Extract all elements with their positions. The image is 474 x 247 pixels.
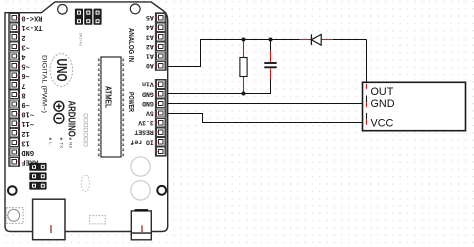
pin label A4 xyxy=(146,24,154,31)
pin socket A0 xyxy=(155,61,165,69)
svg-text:3.3V: 3.3V xyxy=(138,119,154,126)
pin socket A2 xyxy=(155,42,165,50)
wire 5V to module VCC xyxy=(160,114,367,123)
pin socket A5 xyxy=(155,13,165,21)
sensor module U2 xyxy=(363,82,466,130)
pin GND lead xyxy=(366,96,368,108)
pin label D9 xyxy=(21,100,29,108)
svg-text:5V: 5V xyxy=(146,110,154,117)
svg-text:IO ref: IO ref xyxy=(130,138,154,145)
pin label IO ref xyxy=(130,138,154,145)
mounting hole bottom-right xyxy=(157,186,166,195)
crystal Y1 oval xyxy=(81,175,89,191)
svg-text:ANALOG IN: ANALOG IN xyxy=(127,28,134,62)
pin label D13 xyxy=(21,138,29,146)
pin socket GND xyxy=(155,90,165,98)
pin label D12 xyxy=(21,129,29,137)
svg-text:~10: ~10 xyxy=(21,110,34,118)
svg-text:2: 2 xyxy=(21,33,25,41)
UNO ellipse xyxy=(50,54,73,87)
capacitor C1 xyxy=(264,40,276,94)
svg-text:A1: A1 xyxy=(146,53,154,60)
svg-text:TX: TX xyxy=(59,142,64,148)
pin socket digital D6 xyxy=(10,71,20,79)
pin label D11 xyxy=(21,119,34,127)
svg-text:GND: GND xyxy=(371,98,395,110)
LED TX label xyxy=(59,138,64,148)
pin socket digital GND xyxy=(10,148,20,156)
ICSP header 2 xyxy=(29,163,46,190)
digital header strip A xyxy=(9,13,20,90)
pin label D1 xyxy=(21,23,42,31)
pin label 3.3V xyxy=(138,119,154,126)
svg-text:POWER: POWER xyxy=(127,92,134,112)
svg-text:7: 7 xyxy=(21,81,25,89)
pin socket A4 xyxy=(155,23,165,31)
pin socket digital D9 xyxy=(10,100,20,108)
svg-text:A4: A4 xyxy=(146,24,154,31)
pin label A0 xyxy=(146,62,154,69)
svg-text:8R27AS: 8R27AS xyxy=(79,33,83,47)
svg-text:A2: A2 xyxy=(146,43,154,50)
text UNO xyxy=(53,59,70,82)
logo minus xyxy=(54,114,64,124)
pin label D7 xyxy=(21,81,25,89)
electrolytic capacitor C6 xyxy=(131,181,150,200)
LED L label xyxy=(48,138,53,146)
text POWER xyxy=(127,92,134,112)
logo plus xyxy=(54,101,64,111)
svg-text:~6: ~6 xyxy=(21,71,29,79)
mounting hole top-right xyxy=(130,4,140,14)
resistor R1 xyxy=(240,40,247,93)
pin label GND xyxy=(142,90,154,97)
pin socket digital D10 xyxy=(10,109,20,117)
svg-text:ATMEL: ATMEL xyxy=(104,86,113,108)
power jack J2 xyxy=(131,210,151,240)
svg-text:ARDUINO: ARDUINO xyxy=(66,100,77,136)
chip part number xyxy=(79,33,83,47)
svg-text:A5: A5 xyxy=(146,14,154,21)
text ANALOG IN xyxy=(127,28,134,62)
svg-text:~3: ~3 xyxy=(21,42,29,50)
pin socket A1 xyxy=(155,52,165,60)
svg-text:OUT: OUT xyxy=(371,86,394,98)
pin label D3 xyxy=(21,42,29,50)
pin socket 5V xyxy=(155,109,165,117)
svg-text:RESET: RESET xyxy=(134,129,154,136)
pin label D0 xyxy=(21,14,42,22)
pin socket 3.3V xyxy=(155,118,165,126)
text DIGITAL (PWM~) xyxy=(41,55,48,113)
electrolytic capacitor C5 xyxy=(131,157,150,176)
svg-text:GND: GND xyxy=(21,148,34,156)
pin label RESET xyxy=(134,129,154,136)
svg-text:RX<-0: RX<-0 xyxy=(21,14,42,22)
wire GND1 to RC bottom xyxy=(160,93,271,95)
svg-text:Vin: Vin xyxy=(142,81,154,88)
svg-text:13: 13 xyxy=(21,138,29,146)
Arduino UNO board outline xyxy=(5,2,168,232)
pin label D8 xyxy=(21,90,25,98)
pin socket GND xyxy=(155,99,165,107)
pin label A2 xyxy=(146,43,154,50)
LED RX label xyxy=(68,138,73,149)
pin label D10 xyxy=(21,110,34,118)
pin VCC lead xyxy=(366,113,368,125)
pin label D4 xyxy=(21,52,25,60)
pin socket digital D1 xyxy=(10,23,20,31)
pin socket digital AREF xyxy=(10,157,20,165)
pin socket digital D12 xyxy=(10,129,20,137)
mounting hole bottom-left xyxy=(8,186,17,195)
svg-text:VCC: VCC xyxy=(371,118,394,130)
wire OUT riser xyxy=(366,40,368,85)
mounting hole top-left xyxy=(58,5,68,15)
digital header strip B xyxy=(9,90,20,167)
pin label 5V xyxy=(146,110,154,117)
pin socket Vin xyxy=(155,80,165,88)
pin label D5 xyxy=(21,62,29,70)
pin socket A3 xyxy=(155,33,165,41)
voltage regulator pad xyxy=(90,216,106,224)
text ATMEL xyxy=(104,86,113,108)
pin socket digital D13 xyxy=(10,138,20,146)
pin socket digital D7 xyxy=(10,81,20,89)
svg-text:A3: A3 xyxy=(146,33,154,40)
resistor network pads xyxy=(84,114,87,146)
pin label GND xyxy=(21,148,34,156)
junction bottom of R1 xyxy=(242,92,246,96)
svg-text:TX->1: TX->1 xyxy=(21,23,42,31)
svg-text:DIGITAL (PWM~): DIGITAL (PWM~) xyxy=(41,55,48,113)
svg-text:4: 4 xyxy=(21,52,25,60)
pin label D6 xyxy=(21,71,29,79)
svg-text:GND: GND xyxy=(142,90,154,97)
pin label A5 xyxy=(146,14,154,21)
pin socket digital D8 xyxy=(10,90,20,98)
pin label A3 xyxy=(146,33,154,40)
pin socket digital D4 xyxy=(10,52,20,60)
pin label D2 xyxy=(21,33,25,41)
junction top of C1 xyxy=(269,38,273,42)
svg-text:UNO: UNO xyxy=(53,59,70,82)
pin socket digital D2 xyxy=(10,33,20,41)
power header strip xyxy=(155,80,166,157)
pin label AREF xyxy=(21,158,38,166)
svg-text:~5: ~5 xyxy=(21,62,29,70)
svg-text:RX: RX xyxy=(68,142,73,148)
pin OUT lead xyxy=(366,84,368,89)
svg-text:12: 12 xyxy=(21,129,29,137)
ICSP header 1 xyxy=(75,9,102,25)
ATmega chip U3 xyxy=(98,57,123,157)
pin socket digital D3 xyxy=(10,42,20,50)
wire A0 to top rail xyxy=(160,40,367,67)
pin socket digital D5 xyxy=(10,61,20,69)
text ARDUINO xyxy=(66,100,77,136)
pin socket digital D0 xyxy=(10,13,20,21)
pin socket RESET xyxy=(155,128,165,136)
diode D1 xyxy=(300,34,334,45)
USB connector J1 xyxy=(33,199,65,240)
wire GND2 to module GND xyxy=(160,103,367,105)
pin socket IO ref xyxy=(155,138,165,146)
junction top of R1 xyxy=(242,38,246,42)
pin label GND xyxy=(142,100,154,107)
svg-text:AREF: AREF xyxy=(21,158,38,166)
pin label Vin xyxy=(142,81,154,88)
svg-text:~9: ~9 xyxy=(21,100,29,108)
reset button S1 xyxy=(6,208,23,224)
svg-text:GND: GND xyxy=(142,100,154,107)
pin label A1 xyxy=(146,53,154,60)
pin socket digital D11 xyxy=(10,119,20,127)
svg-text:A0: A0 xyxy=(146,62,154,69)
svg-text:~11: ~11 xyxy=(21,119,34,127)
pin socket spare xyxy=(155,147,165,155)
svg-text:8: 8 xyxy=(21,90,25,98)
analog header strip xyxy=(155,13,166,70)
